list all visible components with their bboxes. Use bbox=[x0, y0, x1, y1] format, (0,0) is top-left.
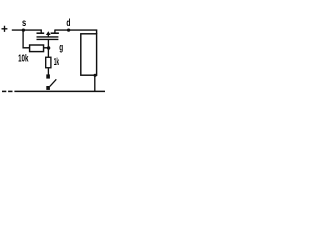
wire left divider drop from s node bbox=[22, 30, 24, 48]
svg-text:s: s bbox=[22, 18, 27, 29]
transistor Q1 MOSFET: source stub bbox=[40, 30, 42, 34]
svg-text:10k: 10k bbox=[18, 54, 29, 65]
wire 1k top lead bbox=[47, 48, 49, 57]
wire bottom rail bbox=[14, 90, 105, 92]
battery minus terminal "-" bbox=[2, 90, 6, 92]
node g junction dot bbox=[47, 46, 50, 49]
resistor R2 1k box bbox=[46, 57, 51, 68]
wire 10k left lead bbox=[23, 47, 31, 49]
wire bottom rail start dash bbox=[8, 90, 12, 92]
node load-bottom junction dot bbox=[94, 74, 97, 77]
transistor Q1 gate bar bbox=[37, 38, 59, 40]
svg-text:d: d bbox=[66, 18, 70, 29]
switch S1 upper terminal bbox=[46, 74, 50, 78]
switch S1 lever bbox=[50, 79, 57, 86]
wire top rail from + to MOSFET source bbox=[12, 29, 42, 31]
transistor Q1 left contact bar bbox=[37, 32, 45, 34]
node s junction dot bbox=[22, 28, 25, 31]
transistor Q1 substrate arrow (up) bbox=[46, 31, 51, 35]
transistor Q1 drain stub bbox=[54, 30, 56, 34]
transistor Q1 right contact bar bbox=[51, 32, 59, 34]
wire 10k right lead to gate node bbox=[44, 47, 49, 49]
node d junction dot bbox=[67, 28, 70, 31]
wire gate drop to divider node bbox=[47, 39, 49, 48]
wire drain top: d wire to load bbox=[55, 30, 97, 34]
svg-text:1k: 1k bbox=[54, 57, 60, 68]
battery plus terminal "+" bbox=[2, 26, 8, 32]
wire 1k bottom lead bbox=[47, 68, 49, 75]
load RL box bbox=[81, 34, 97, 75]
transistor Q1 channel bar bbox=[37, 36, 59, 38]
switch S1 lower terminal bbox=[46, 86, 50, 90]
svg-text:g: g bbox=[59, 43, 63, 54]
wire load bottom drop bbox=[94, 75, 96, 91]
resistor R1 10k box bbox=[30, 45, 44, 52]
